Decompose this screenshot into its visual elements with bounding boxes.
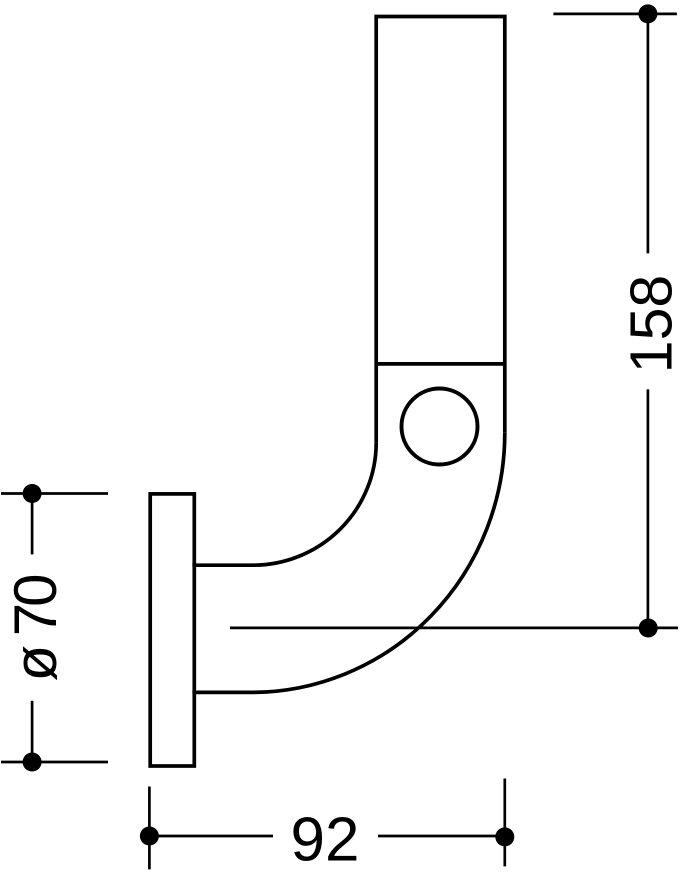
dim ø70: bottom dot xyxy=(23,753,42,772)
dim ø70: top tick xyxy=(1,492,108,495)
dim 158: top dot xyxy=(638,4,657,23)
dim 158: vertical line upper segment xyxy=(647,14,650,254)
dim 92: right horizontal segment xyxy=(378,835,505,838)
wall plate xyxy=(150,494,194,766)
dim 158: vertical line lower segment xyxy=(647,389,650,628)
dim 92: right vertical line xyxy=(503,779,506,867)
dim 158: centerline through arm xyxy=(230,627,678,630)
dim ø70: bottom tick xyxy=(1,761,108,764)
tube divider line xyxy=(376,362,505,366)
svg-text:ø 70: ø 70 xyxy=(2,574,69,682)
dim 158: bottom dot xyxy=(639,619,658,638)
tube body (vertical spare-roll tube) xyxy=(376,17,505,443)
dim 158: top tick xyxy=(553,13,677,16)
dim ø70: vertical line upper segment xyxy=(31,494,34,555)
mounting hole circle xyxy=(402,389,478,465)
dim 92: right dot xyxy=(495,827,514,846)
dim 92: left dot xyxy=(140,827,159,846)
dim ø70: vertical line lower segment xyxy=(31,701,34,762)
dim 92: left vertical line xyxy=(148,787,151,870)
svg-text:158: 158 xyxy=(618,275,680,373)
inner bend curve + upper arm line xyxy=(192,443,376,566)
outer bend curve + lower arm line xyxy=(192,433,504,693)
dim 92: left horizontal segment xyxy=(149,835,273,838)
svg-text:92: 92 xyxy=(291,806,360,872)
dim ø70: top dot xyxy=(23,484,42,503)
